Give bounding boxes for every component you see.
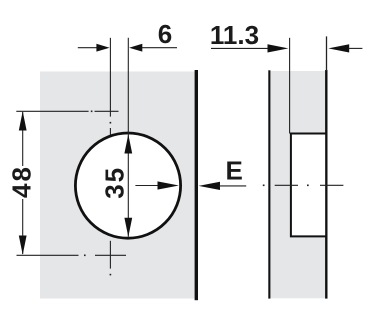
svg-text:35: 35 <box>99 166 129 199</box>
svg-text:11.3: 11.3 <box>210 20 259 50</box>
svg-text:E: E <box>226 156 243 186</box>
arrowhead right (11.3) <box>268 44 289 52</box>
svg-text:6: 6 <box>158 19 172 49</box>
arrowhead up (48 top) <box>19 111 27 130</box>
extension line left (11.3) <box>289 38 291 134</box>
screw hole center line dash-dot continuation <box>110 122 112 124</box>
front view door panel <box>40 72 195 299</box>
lower screw hole horizontal center line (dash-dot) <box>17 254 79 256</box>
lower screw hole vertical cross stroke <box>109 241 111 269</box>
cup center line / 35 dimension line vertical <box>127 38 129 237</box>
svg-text:48: 48 <box>6 165 36 198</box>
extension line right (11.3) <box>326 36 328 71</box>
arrowhead right (6 left) <box>96 44 109 52</box>
arrowhead down (48 bottom) <box>19 236 27 255</box>
arrowhead down (35 bottom) <box>124 218 132 237</box>
dimension line 48 vertical <box>22 112 24 166</box>
side view horizontal center line (dash-dot) <box>263 185 265 187</box>
door edge thick line <box>195 70 198 300</box>
dimension 11.3 line left part <box>211 47 269 49</box>
arrow to cup edge (E reference, inside circle) <box>135 185 159 187</box>
side panel left edge <box>268 70 270 298</box>
dimension 11.3 right tail <box>349 47 363 49</box>
arrowhead left (6 right) <box>129 44 142 52</box>
side view door panel <box>269 71 326 298</box>
side panel right edge thick <box>325 70 327 299</box>
cup notch outline <box>291 134 326 237</box>
cup notch white cut-out <box>291 134 325 237</box>
dimension 6 line right tail <box>142 47 177 49</box>
cup hole circle (35 mm) <box>75 133 180 238</box>
screw hole center line vertical (6 mm offset), upper part <box>109 38 111 117</box>
arrowhead left (11.3) <box>328 44 349 52</box>
arrowhead up (35 top) <box>124 134 132 153</box>
dimension 6 line left tail <box>78 47 97 49</box>
upper screw hole horizontal center line (dash-dot) <box>16 110 88 112</box>
arrow E pointing at door edge <box>199 182 220 190</box>
